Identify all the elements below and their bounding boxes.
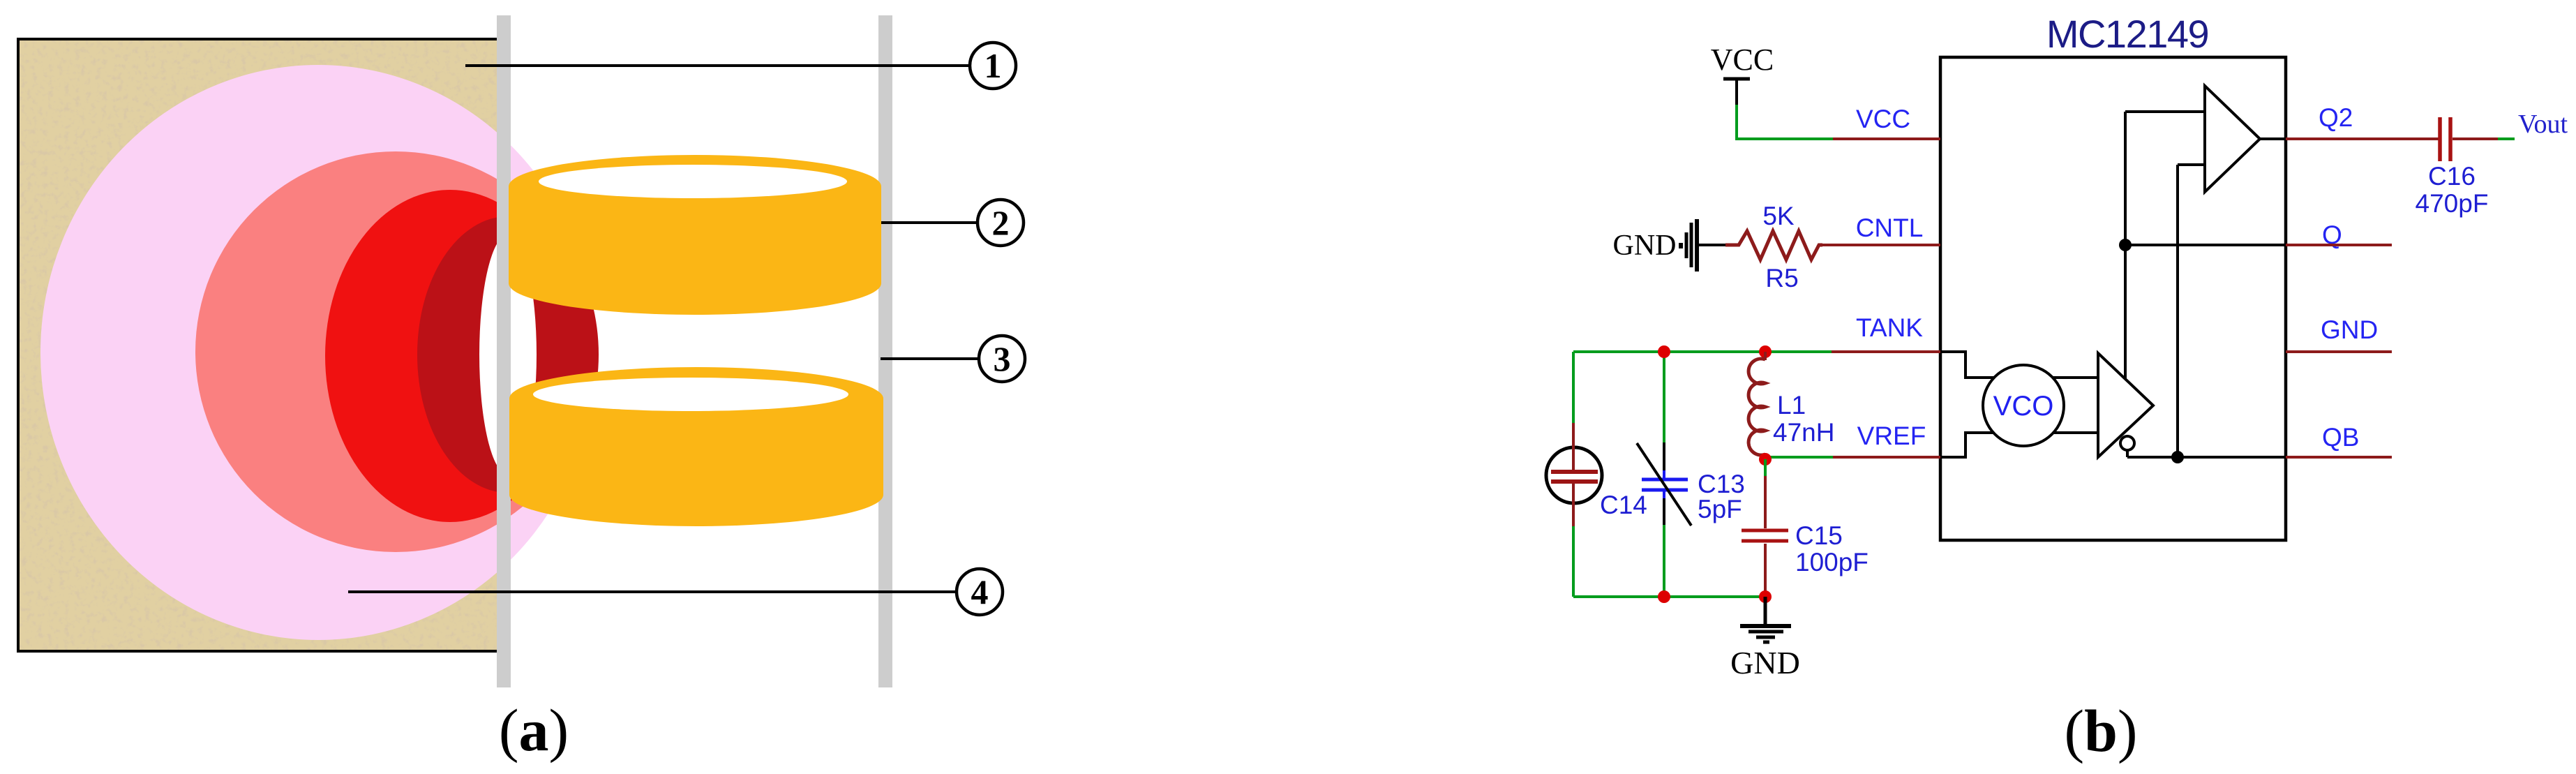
IC U1 MC12149 body	[1940, 57, 2286, 540]
svg-text:L1: L1	[1777, 391, 1806, 419]
resistor R5	[1725, 231, 1822, 260]
wire Q row inside IC	[2125, 244, 2286, 246]
wire tank bottom green	[1573, 595, 1765, 598]
tissue square with sand texture	[18, 39, 498, 651]
node VREF junction dot	[1759, 453, 1772, 466]
wire R5 to CNTL pin	[1820, 244, 1940, 246]
svg-text:1: 1	[984, 46, 1002, 85]
wire C13 branch	[1663, 352, 1665, 444]
wire QB out	[2286, 456, 2392, 459]
skin barrier bar left	[497, 15, 511, 687]
capacitor C16	[2440, 117, 2498, 161]
label 3	[979, 336, 1025, 382]
wire VREF pin	[1833, 456, 1940, 459]
svg-text:C13: C13	[1698, 470, 1745, 498]
wire TANK pin	[1832, 350, 1940, 353]
callout line 2	[881, 221, 978, 224]
dark red hot ring	[417, 216, 599, 493]
svg-text:470pF: 470pF	[2416, 189, 2489, 218]
wire GND out	[2286, 350, 2392, 353]
VCO input bracket	[1940, 352, 1994, 378]
capacitor C13 (variable)	[1637, 442, 1691, 526]
wire top buffer upper input	[2125, 110, 2205, 113]
wire tank left vertical	[1572, 352, 1575, 424]
svg-text:2: 2	[992, 203, 1010, 242]
wire top buffer lower input	[2178, 163, 2205, 166]
svg-text:4: 4	[971, 572, 989, 611]
inversion bubble	[2120, 436, 2134, 450]
svg-text:QB: QB	[2322, 423, 2359, 452]
callout line 3	[881, 357, 979, 360]
wire Q2 out	[2286, 137, 2439, 140]
svg-text:47nH: 47nH	[1773, 418, 1834, 447]
svg-text:MC12149: MC12149	[2046, 12, 2208, 56]
wire VCC pin	[1833, 137, 1940, 140]
svg-text:5pF: 5pF	[1698, 495, 1742, 523]
node bottom junction dots	[1658, 590, 1670, 603]
svg-text:R5: R5	[1765, 264, 1798, 292]
svg-text:CNTL: CNTL	[1856, 214, 1924, 242]
coil torus upper	[509, 155, 881, 315]
svg-text:GND: GND	[1613, 230, 1677, 262]
VCO circle	[1983, 365, 2064, 446]
wire QB row inside IC	[2127, 456, 2286, 459]
capacitor C15	[1742, 530, 1788, 597]
svg-text:C16: C16	[2428, 162, 2476, 191]
svg-text:VREF: VREF	[1857, 422, 1926, 450]
svg-text:VCC: VCC	[1856, 105, 1910, 133]
callout line 4	[348, 590, 957, 593]
wire to C15	[1764, 459, 1767, 477]
svg-text:GND: GND	[2321, 315, 2378, 344]
feedback vertical to top buffer upper input	[2124, 112, 2127, 379]
wire bubble to QB row	[2126, 450, 2129, 457]
svg-text:VCC: VCC	[1711, 43, 1774, 77]
label 1	[970, 43, 1016, 89]
svg-text:100pF: 100pF	[1795, 548, 1869, 576]
wire Vout green	[2498, 137, 2515, 140]
wire buffer to Q2 pin	[2260, 137, 2286, 140]
svg-text:C15: C15	[1795, 521, 1843, 550]
wire Q out	[2286, 244, 2392, 246]
feedback vertical to top buffer lower input	[2176, 165, 2179, 457]
salmon field region	[195, 151, 596, 552]
label 4	[957, 569, 1003, 615]
ground (below C15)	[1730, 597, 1800, 680]
capacitor C14 body	[1546, 423, 1602, 526]
pink field region	[40, 65, 596, 640]
wire gnd to R5	[1697, 244, 1728, 246]
skin barrier bar right	[878, 15, 892, 687]
wires VCO to buffer	[2053, 376, 2098, 379]
wire VREF green	[1765, 456, 1833, 459]
callout line 1	[465, 64, 970, 67]
svg-text:(a): (a)	[499, 697, 569, 764]
node Q feedback dot	[2119, 239, 2132, 251]
svg-text:(b): (b)	[2064, 697, 2137, 764]
buffer (VCO output)	[2098, 353, 2153, 457]
node QB feedback dot	[2171, 451, 2184, 463]
node TANK junction dots	[1658, 345, 1670, 358]
coil torus lower	[509, 367, 883, 526]
svg-text:Q2: Q2	[2319, 103, 2353, 132]
svg-text:TANK: TANK	[1856, 313, 1923, 342]
wire TANK green	[1573, 350, 1832, 353]
svg-text:VCO: VCO	[1993, 391, 2054, 422]
ground (left, at R5)	[1613, 219, 1698, 271]
label 2	[978, 200, 1024, 246]
svg-text:3: 3	[994, 339, 1011, 378]
svg-text:5K: 5K	[1762, 202, 1795, 230]
wire VCC green	[1737, 105, 1833, 139]
bright red field region	[325, 190, 575, 522]
svg-text:GND: GND	[1730, 645, 1800, 680]
output buffer (Q2)	[2205, 86, 2260, 192]
VCC power symbol	[1711, 43, 1774, 106]
svg-text:C14: C14	[1600, 491, 1647, 519]
svg-text:Vout: Vout	[2518, 110, 2568, 139]
inductor L1	[1748, 352, 1765, 459]
white ring hole	[479, 235, 537, 475]
